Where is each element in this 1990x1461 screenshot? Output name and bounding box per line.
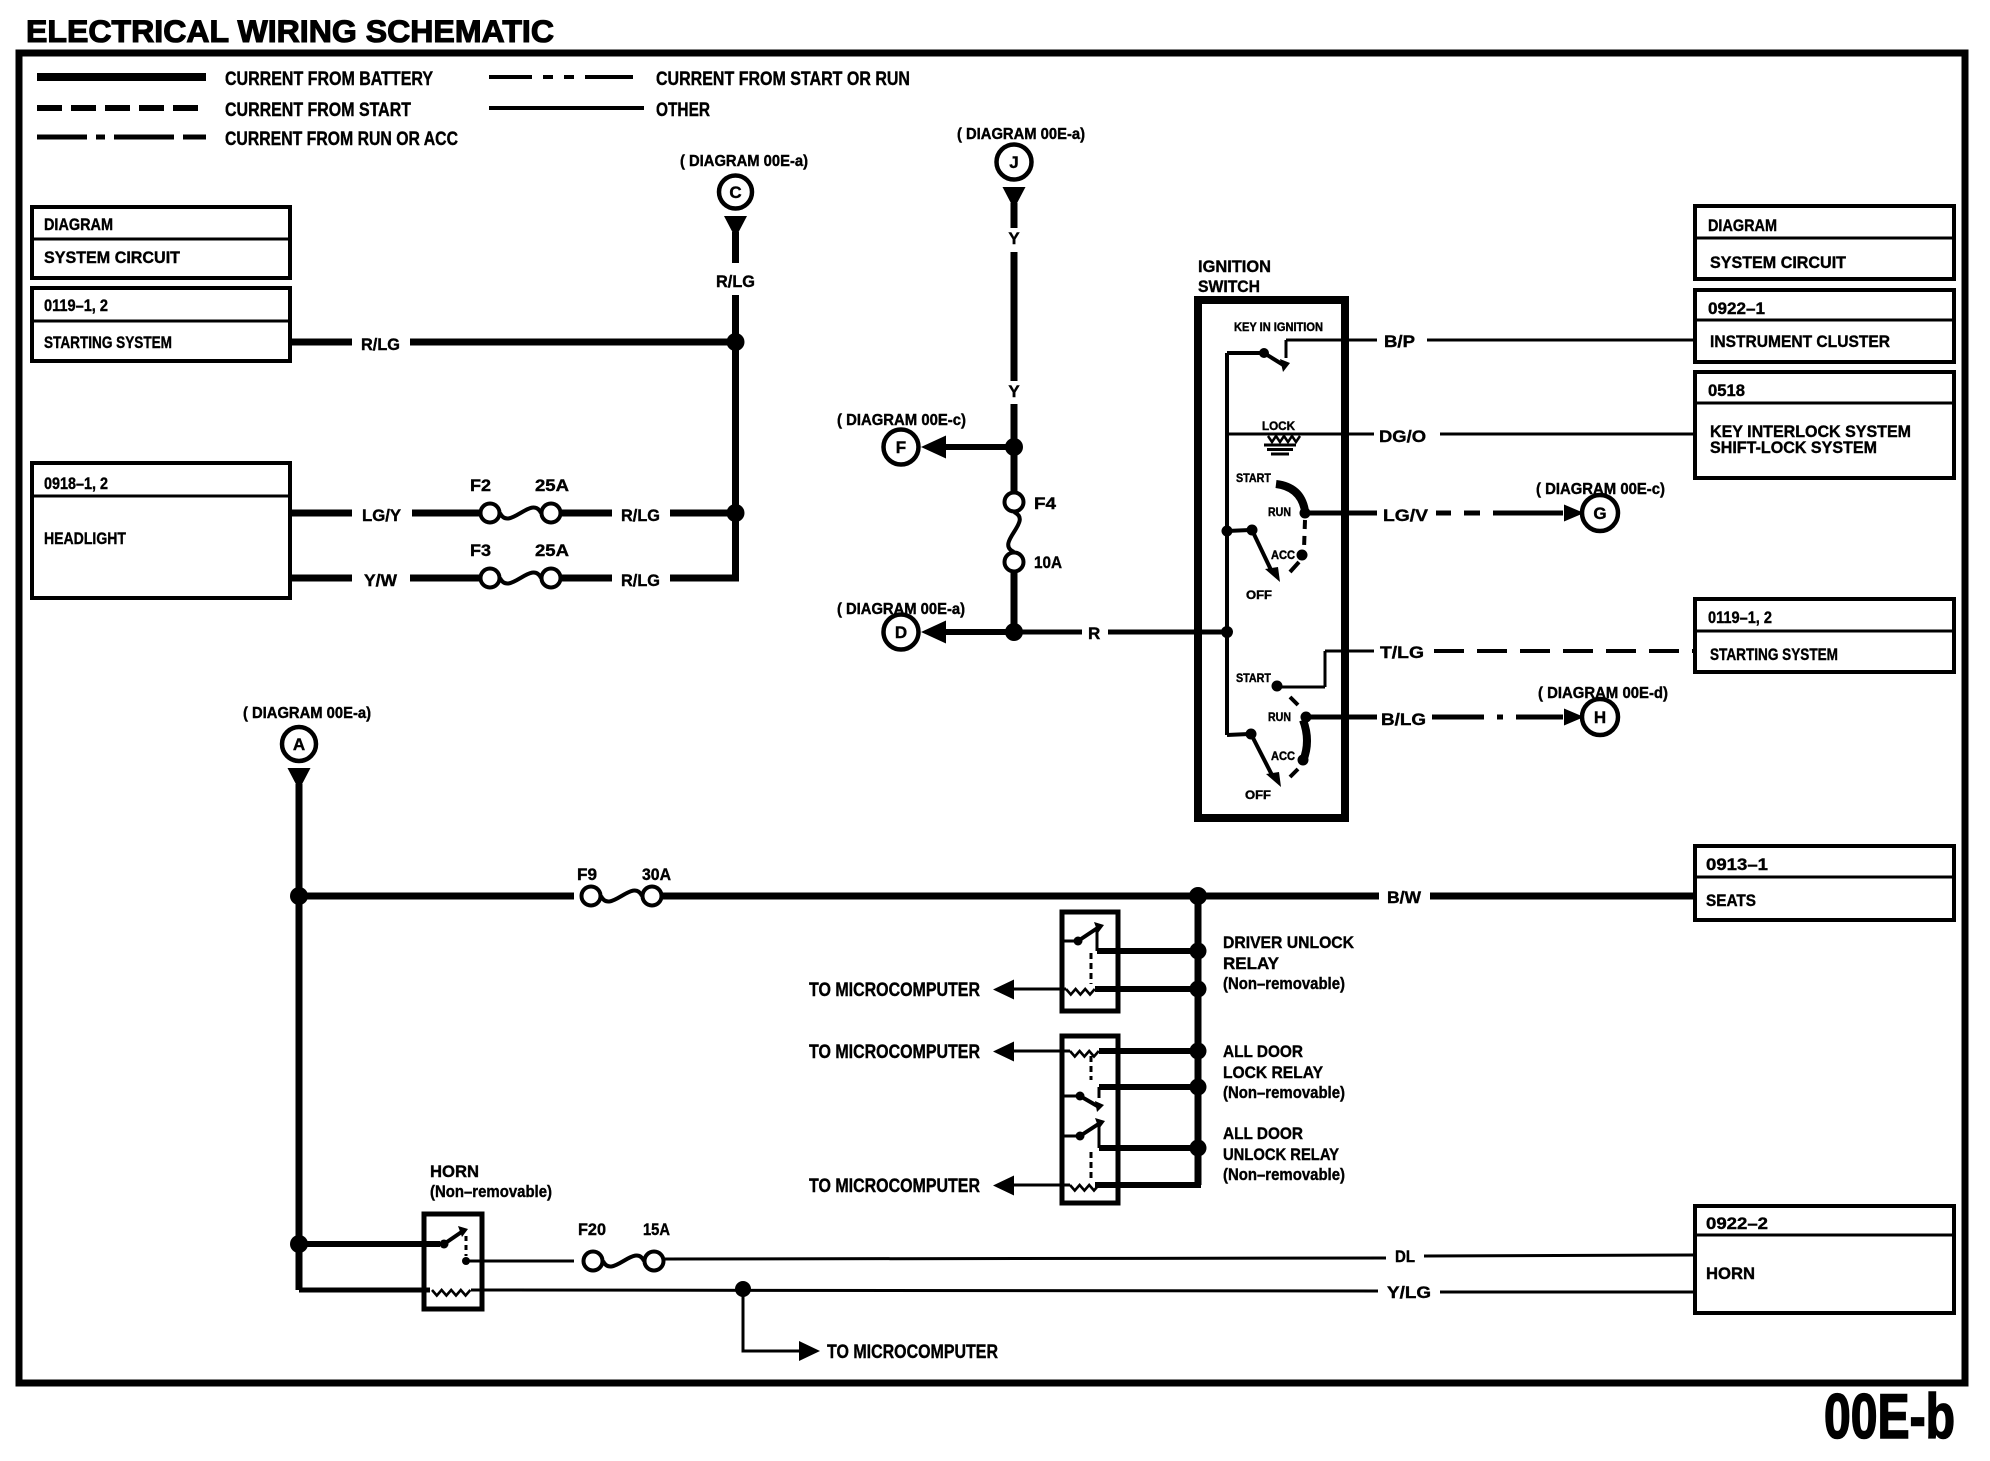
svg-text:INSTRUMENT CLUSTER: INSTRUMENT CLUSTER (1710, 332, 1890, 351)
rotary switch 1 wiper arm (1222, 526, 1233, 537)
svg-text:OTHER: OTHER (656, 99, 710, 121)
svg-text:RUN: RUN (1268, 507, 1291, 519)
svg-text:( DIAGRAM 00E-a): ( DIAGRAM 00E-a) (680, 153, 808, 170)
wire to node D with arrow (944, 629, 1014, 635)
svg-text:ALL DOOR: ALL DOOR (1223, 1124, 1303, 1143)
rotary switch 2 travel arc RUN-ACC (thick) (1303, 720, 1307, 761)
svg-text:Y: Y (1008, 382, 1020, 401)
driver unlock relay link (dashed) (1090, 953, 1093, 984)
svg-text:START: START (1236, 673, 1271, 685)
horn relay switch output to fuse F20 (462, 1257, 470, 1265)
box: 0922-1 instrument cluster (1695, 290, 1954, 362)
box: 0918-1,2 headlight (32, 463, 290, 598)
svg-text:F20: F20 (578, 1220, 606, 1239)
svg-text:ACC: ACC (1271, 550, 1295, 562)
horn relay box (424, 1214, 482, 1309)
svg-text:SWITCH: SWITCH (1198, 277, 1260, 296)
wire B/LG dash-dot to node H (1432, 715, 1563, 720)
driver unlock relay box (1062, 912, 1118, 1011)
svg-text:HEADLIGHT: HEADLIGHT (44, 529, 127, 548)
svg-text:LG/V: LG/V (1383, 506, 1429, 525)
svg-text:KEY IN IGNITION: KEY IN IGNITION (1234, 322, 1323, 334)
rotary switch 1 travel arc (1276, 484, 1305, 511)
horn relay coil (432, 1290, 470, 1296)
legend sample: other (489, 106, 644, 110)
svg-text:LOCK: LOCK (1262, 421, 1296, 433)
svg-text:Y: Y (1008, 229, 1020, 248)
driver unlock relay switch (1062, 940, 1076, 943)
rotary switch 2 dashed arc ACC-OFF (1290, 769, 1298, 777)
wire LG/V dashed to node G (1436, 511, 1563, 516)
wire to horn relay switch (299, 1241, 440, 1247)
horn relay switch (440, 1240, 449, 1249)
svg-text:(Non–removable): (Non–removable) (1223, 1083, 1345, 1102)
arrow into J wire (1003, 187, 1026, 209)
svg-text:(Non–removable): (Non–removable) (1223, 1165, 1345, 1184)
node C circle (719, 176, 752, 209)
svg-text:CURRENT FROM BATTERY: CURRENT FROM BATTERY (225, 68, 433, 90)
junction node R entry (1221, 626, 1233, 638)
svg-text:TO MICROCOMPUTER: TO MICROCOMPUTER (809, 979, 980, 1001)
svg-text:HORN: HORN (1706, 1264, 1755, 1283)
legend sample: current from run or acc (37, 135, 206, 140)
svg-text:ACC: ACC (1271, 751, 1295, 763)
svg-text:G: G (1593, 504, 1606, 523)
svg-text:RELAY: RELAY (1223, 954, 1280, 973)
svg-text:IGNITION: IGNITION (1198, 257, 1271, 276)
svg-text:DL: DL (1395, 1247, 1415, 1266)
svg-text:0518: 0518 (1708, 381, 1745, 400)
node G circle (1582, 495, 1618, 531)
wire drop to microcomputer (743, 1289, 799, 1351)
svg-text:ALL DOOR: ALL DOOR (1223, 1042, 1303, 1061)
svg-text:R: R (1088, 624, 1100, 643)
node F circle (884, 430, 919, 465)
svg-text:UNLOCK RELAY: UNLOCK RELAY (1223, 1145, 1340, 1164)
svg-text:C: C (729, 183, 741, 202)
rotary switch 2 wiper arm (1227, 734, 1249, 735)
svg-text:LOCK RELAY: LOCK RELAY (1223, 1063, 1324, 1082)
svg-text:Y/LG: Y/LG (1387, 1283, 1431, 1302)
box: 0119-1,2 starting system (left) (32, 288, 290, 361)
svg-text:T/LG: T/LG (1380, 643, 1424, 662)
junction node at R/LG F2 (727, 504, 745, 522)
svg-text:OFF: OFF (1246, 590, 1272, 602)
node A circle (282, 727, 316, 761)
svg-text:CURRENT FROM START OR RUN: CURRENT FROM START OR RUN (656, 68, 910, 90)
legend sample: current from start (37, 105, 206, 111)
svg-text:15A: 15A (643, 1220, 670, 1239)
svg-text:F3: F3 (470, 541, 491, 560)
svg-text:OFF: OFF (1245, 790, 1271, 802)
wire LG/V from RUN 1 (1305, 511, 1377, 516)
rotary switch 2 dashed arc START-RUN (1290, 697, 1298, 705)
svg-text:SYSTEM CIRCUIT: SYSTEM CIRCUIT (1710, 253, 1847, 272)
wire R/LG from fuse F2 to node C line (561, 510, 612, 517)
rotary switch 1 dashed arc ACC-OFF (1290, 562, 1299, 572)
svg-text:RUN: RUN (1268, 712, 1291, 724)
svg-text:A: A (293, 735, 305, 754)
svg-text:F2: F2 (470, 476, 491, 495)
legend sample: current from battery (37, 73, 206, 81)
wire Y vertical from J (1011, 203, 1018, 228)
svg-text:F9: F9 (577, 865, 597, 884)
svg-text:DRIVER UNLOCK: DRIVER UNLOCK (1223, 933, 1355, 952)
svg-text:ELECTRICAL WIRING SCHEMATIC: ELECTRICAL WIRING SCHEMATIC (26, 13, 554, 49)
svg-text:DIAGRAM: DIAGRAM (1708, 216, 1777, 235)
wire to node F with arrow (944, 444, 1014, 450)
svg-text:DIAGRAM: DIAGRAM (44, 215, 113, 234)
all door lock relay coil (1013, 1050, 1070, 1053)
box: 0119-1,2 starting system (right) (1695, 599, 1954, 672)
svg-text:25A: 25A (535, 476, 569, 495)
wire LG/Y from headlight (290, 510, 352, 517)
svg-text:(Non–removable): (Non–removable) (430, 1182, 552, 1201)
svg-text:0119–1, 2: 0119–1, 2 (1708, 608, 1772, 627)
legend sample: current from start or run (489, 75, 644, 79)
svg-text:LG/Y: LG/Y (362, 506, 402, 525)
wire R/LG from starting system to node C line (290, 339, 352, 346)
svg-text:CURRENT FROM START: CURRENT FROM START (225, 99, 411, 121)
wire T/LG step from start 2 contact (1281, 686, 1325, 689)
svg-text:B/W: B/W (1387, 888, 1422, 907)
door lock relays box (1062, 1036, 1118, 1203)
svg-text:R/LG: R/LG (716, 272, 755, 291)
svg-text:SYSTEM CIRCUIT: SYSTEM CIRCUIT (44, 248, 181, 267)
junction node A to B/W (290, 887, 308, 905)
wire DL to horn (664, 1258, 1386, 1259)
wire Y/W from headlight (290, 575, 352, 582)
wire B/W trunk (299, 893, 574, 900)
svg-text:START: START (1236, 473, 1271, 485)
svg-text:TO MICROCOMPUTER: TO MICROCOMPUTER (827, 1341, 998, 1363)
svg-text:( DIAGRAM 00E-c): ( DIAGRAM 00E-c) (837, 412, 966, 429)
junction node at R/LG starting system (727, 333, 745, 351)
svg-text:0119–1, 2: 0119–1, 2 (44, 296, 108, 315)
wire B/LG from RUN (1306, 715, 1377, 720)
wire from fuse F4 down to node D junction (1011, 572, 1018, 632)
driver unlock relay coil (1013, 988, 1066, 991)
svg-text:Y/W: Y/W (364, 571, 398, 590)
box: 0922-2 horn (1695, 1206, 1954, 1313)
all door lock relay switch output wire (1099, 1084, 1198, 1090)
svg-text:B/P: B/P (1384, 332, 1415, 351)
wire R to ignition switch (1014, 630, 1082, 635)
svg-text:STARTING SYSTEM: STARTING SYSTEM (1710, 645, 1838, 664)
all door unlock relay coil (1013, 1184, 1070, 1187)
junction node A to horn (290, 1235, 308, 1253)
arrow into C wire (724, 216, 747, 238)
rotary switch 1 dashed arc RUN-ACC (1304, 520, 1305, 549)
svg-text:HORN: HORN (430, 1162, 479, 1181)
svg-text:10A: 10A (1034, 553, 1062, 572)
all door lock relay switch (1062, 1095, 1077, 1098)
to microcomputer arrow 3 (993, 1176, 1014, 1196)
junction node D-R (1005, 623, 1023, 641)
wire R/LG from fuse F3 to node C line elbow (561, 575, 612, 582)
ignition switch box (1198, 300, 1345, 818)
node H circle (1582, 699, 1618, 735)
svg-text:0918–1, 2: 0918–1, 2 (44, 474, 108, 493)
svg-text:30A: 30A (642, 865, 671, 884)
wire vertical from A (296, 784, 303, 1290)
to microcomputer arrow 2 (993, 1042, 1014, 1062)
svg-text:SEATS: SEATS (1706, 891, 1756, 910)
relay bus wire (1195, 896, 1202, 1185)
box: diagram / system circuit (right) (1695, 206, 1954, 279)
svg-text:25A: 25A (535, 541, 569, 560)
svg-text:F: F (896, 438, 906, 457)
svg-text:R/LG: R/LG (361, 335, 400, 354)
node D circle (884, 615, 919, 650)
svg-text:R/LG: R/LG (621, 571, 660, 590)
wire R/LG vertical from C (732, 232, 739, 263)
box: diagram / system circuit (left) (32, 207, 290, 278)
svg-text:( DIAGRAM 00E-a): ( DIAGRAM 00E-a) (243, 705, 371, 722)
junction node bus/BW (1189, 887, 1207, 905)
node J circle (997, 145, 1032, 180)
wire B/P to instrument cluster (1286, 339, 1377, 342)
wire T/LG dashed to starting system (1434, 649, 1695, 653)
wire DG/O to key interlock (1227, 433, 1374, 436)
horn relay link (dashed) (465, 1236, 468, 1256)
svg-text:H: H (1594, 708, 1606, 727)
svg-text:00E-b: 00E-b (1824, 1382, 1955, 1452)
all door lock relay link (dashed) (1090, 1056, 1093, 1080)
junction node to F (1005, 438, 1023, 456)
all door unlock relay link (dashed) (1090, 1152, 1093, 1178)
svg-text:B/LG: B/LG (1381, 710, 1426, 729)
svg-text:TO MICROCOMPUTER: TO MICROCOMPUTER (809, 1041, 980, 1063)
wire Y/LG from A elbow through horn coil (299, 1288, 430, 1293)
all door unlock relay switch (1062, 1135, 1077, 1138)
junction node on Y/LG (735, 1281, 751, 1297)
driver unlock relay switch output wire (1097, 948, 1198, 954)
svg-text:F4: F4 (1034, 494, 1057, 513)
wire B/W to seats (662, 893, 1379, 900)
svg-text:( DIAGRAM 00E-a): ( DIAGRAM 00E-a) (957, 126, 1085, 143)
ignition switch inner bus wire (1225, 353, 1229, 735)
svg-text:CURRENT FROM RUN OR ACC: CURRENT FROM RUN OR ACC (225, 128, 458, 150)
box: 0913-1 seats (1695, 846, 1954, 920)
svg-text:SHIFT-LOCK SYSTEM: SHIFT-LOCK SYSTEM (1710, 438, 1877, 457)
arrow into A wire (288, 768, 311, 790)
svg-text:DG/O: DG/O (1379, 427, 1426, 446)
all door unlock relay switch output wire (1099, 1145, 1198, 1151)
svg-text:TO MICROCOMPUTER: TO MICROCOMPUTER (809, 1175, 980, 1197)
box: 0518 key interlock / shift-lock (1695, 372, 1954, 478)
svg-text:(Non–removable): (Non–removable) (1223, 974, 1345, 993)
svg-text:0922–1: 0922–1 (1708, 299, 1765, 318)
svg-text:R/LG: R/LG (621, 506, 660, 525)
svg-text:D: D (895, 623, 907, 642)
svg-text:0913–1: 0913–1 (1706, 855, 1768, 874)
svg-text:J: J (1009, 153, 1018, 172)
svg-text:STARTING SYSTEM: STARTING SYSTEM (44, 333, 172, 352)
to microcomputer arrow 1 (993, 980, 1014, 1000)
svg-text:0922–2: 0922–2 (1706, 1214, 1768, 1233)
